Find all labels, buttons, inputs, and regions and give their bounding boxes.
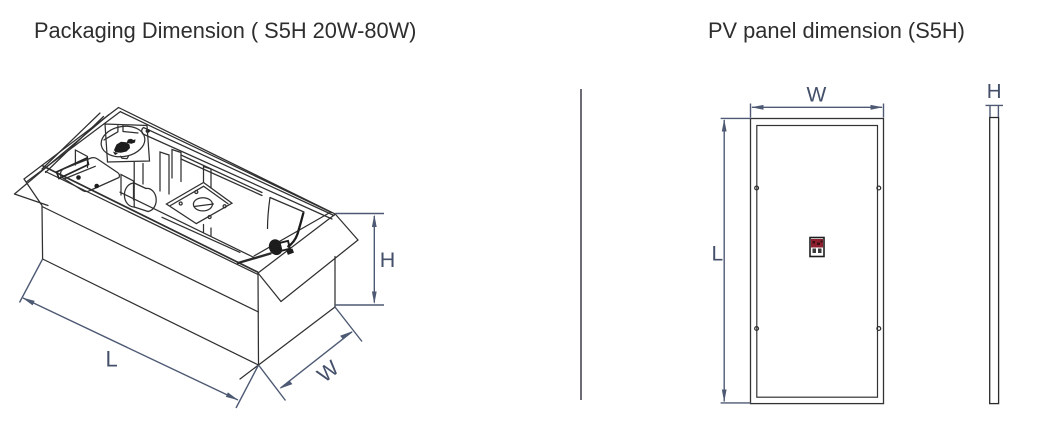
pole strip left cap [142,128,144,135]
H bottom extension line [335,304,384,306]
rim back-right outer edge [119,108,336,215]
W dimension line [281,332,353,388]
tube left cap [124,183,134,207]
lamp bottom notch [121,156,129,158]
W arrow lower-left [280,380,293,389]
lamp logo text marks [113,139,136,155]
side view rect [990,118,999,404]
battery slab right edge (dark) [288,213,304,248]
separator line [580,89,582,400]
svg-text:W: W [807,83,827,106]
divider right compartment wall [204,167,212,236]
frame dot bottom-left [755,327,759,331]
nameplate marks [813,249,817,254]
H dim line left stub [986,104,1004,106]
plate base sheet front edge [162,217,240,252]
frame dot top-left [755,186,759,190]
L arrow right [226,392,239,400]
tube front face [133,183,135,207]
svg-text:W: W [313,355,344,387]
right flap outer edge [281,240,358,302]
tube top edge [134,183,146,189]
rim back-left band inner [27,112,121,182]
L dimension line [723,120,725,402]
divider lamp right wall [134,162,143,184]
rim front-right edge [258,214,335,273]
panel outer frame [751,119,884,404]
W extension right [335,307,362,342]
H extension right [997,105,999,117]
W dimension line [752,106,882,108]
pole strip top edge [144,128,335,216]
tray screw 2 [94,184,99,189]
inner rim front edge b [46,172,259,275]
tray inner line [64,166,95,179]
H arrow down [372,292,377,305]
right flap top edge [335,214,358,240]
L dimension line [23,298,238,400]
box left vertical edge [41,207,44,260]
W arrow upper-right [340,331,353,340]
plate screw hole 4 [208,216,211,219]
W arrow right [871,105,884,110]
divider plate left wall [160,150,181,195]
bracket lower piece [286,248,294,254]
dark wedge support [57,158,89,179]
L arrow up [722,119,727,132]
tray screw 1 [76,175,81,180]
bottom flap stub at front corner [240,365,259,379]
lamp rod [238,254,271,264]
plate inner edge lines [171,186,229,205]
svg-text:H: H [380,248,396,272]
rim back-left band outer [24,108,119,180]
right flap near edge [258,273,281,302]
bracket dark body [267,237,285,257]
box front vertical edge [257,273,260,365]
inner front wall top edge [120,192,254,257]
L arrow down [722,390,727,403]
rim band left end edge [24,179,42,206]
left flap outer edge [15,115,110,195]
W extension left [259,365,286,401]
tube bottom edge [134,207,148,212]
divider tray right wall [121,175,134,201]
plate screw hole 2 [179,202,182,205]
inner right wall top edge [254,213,330,257]
middle compartment back wall b [181,159,262,196]
inner rim left edge a [42,113,100,169]
rim back-right inner edge [121,112,332,213]
frame dot bottom-right [877,327,881,331]
left flap bottom edge [15,194,49,206]
lamp neck [104,125,138,139]
L extension right [236,365,259,408]
mounting plate [166,183,232,224]
W arrow left [751,105,764,110]
box bottom-right edge [259,307,336,365]
plate center hole [193,198,212,211]
battery slab top edge [270,198,304,213]
frame dot top-right [877,186,881,190]
svg-text:H: H [987,80,1002,103]
pole strip bottom edge [143,134,332,219]
plate screw hole 3 [223,205,226,208]
inner rim left edge b [46,117,104,173]
rim band bottom edge on front face [42,207,259,313]
svg-text:PV panel dimension (S5H): PV panel dimension (S5H) [708,18,965,43]
H dimension line [373,216,375,303]
H top extension line [335,213,384,215]
foam tray outline [60,158,119,192]
svg-text:Packaging Dimension ( S5H 20W-: Packaging Dimension ( S5H 20W-80W) [34,18,416,43]
panel inner frame [757,126,878,398]
svg-text:L: L [712,243,724,266]
lamp circle [99,123,148,160]
plate screw hole 1 [195,191,198,194]
W extension right [883,104,885,118]
L extension left [20,259,43,303]
W extension left [750,104,752,118]
box bottom-left edge [43,259,259,365]
pole rivet [145,129,150,134]
L arrow left [22,298,35,306]
box right vertical edge below flap [334,257,336,308]
bracket white plate [280,241,290,251]
middle compartment back wall a [181,155,262,193]
plate hole slot line [194,204,214,207]
H arrow up [372,215,377,228]
lamp block outline [105,124,150,162]
battery slab left edge [268,198,271,230]
nameplate red band [811,239,823,248]
svg-text:L: L [106,347,118,372]
H extension left [989,105,991,117]
L extension top [721,117,751,119]
left compartment back wall [75,150,87,168]
nameplate label outer [810,238,824,257]
tube right cap [146,188,156,211]
L extension bottom [721,402,751,404]
inner rim front edge a (thick) [43,166,258,272]
